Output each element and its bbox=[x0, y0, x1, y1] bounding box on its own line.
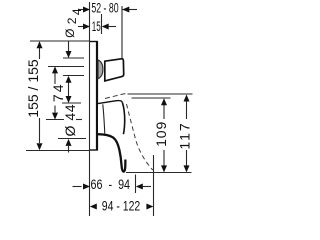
dim 52-80 right arrow bbox=[122, 7, 129, 13]
wire dim O44 tail bottom bbox=[68, 146, 70, 153]
spout body fill bbox=[98, 101, 125, 146]
dim 15 right arrow bbox=[102, 24, 109, 30]
spout front contour line bbox=[103, 104, 105, 134]
handle hub bbox=[98, 60, 103, 79]
dim 94-122 right arrow bbox=[146, 204, 153, 210]
dim 155 bottom arrow bbox=[37, 143, 43, 150]
dim O44 top arrow bbox=[66, 96, 72, 103]
wire dim 74 line bbox=[54, 68, 56, 85]
handle lever bbox=[105, 59, 124, 81]
dashed spout top edge bbox=[105, 93, 128, 98]
dim 74 top arrow bbox=[52, 66, 58, 73]
node ext line lever axis y=66.5 bbox=[48, 66, 84, 68]
svg-text:Ø: Ø bbox=[63, 29, 77, 38]
node ext line lever top y=58 bbox=[63, 57, 84, 59]
node ext line pulled spout tip x=153.5 bbox=[153, 155, 155, 216]
node ext line plate bottom y=150.5 bbox=[26, 150, 90, 152]
wire dim 52-80 tails bbox=[78, 9, 85, 11]
dim 109 top arrow bbox=[161, 98, 167, 105]
dim O24 top arrow bbox=[66, 51, 72, 58]
svg-text:155 / 155: 155 / 155 bbox=[25, 59, 41, 118]
svg-text:4: 4 bbox=[70, 8, 84, 15]
dim 52-80 left arrow bbox=[83, 7, 90, 13]
spout front edge bbox=[123, 103, 125, 134]
wire dim 66-94 tails bbox=[73, 186, 82, 188]
node ext line spout tip x=135.5 bbox=[135, 175, 137, 194]
node ext line lever bottom y=75.5 bbox=[63, 75, 84, 77]
svg-text:52 - 80: 52 - 80 bbox=[91, 0, 118, 15]
svg-text:117: 117 bbox=[176, 121, 192, 149]
dim 15 left arrow bbox=[83, 24, 90, 30]
escutcheon plate front edge bbox=[90, 41, 98, 151]
dim 109 bottom arrow bbox=[161, 165, 167, 172]
node ext line solid-top y=98 bbox=[132, 97, 171, 99]
dim 66-94 left arrow bbox=[83, 184, 90, 190]
svg-text:15: 15 bbox=[92, 19, 101, 34]
svg-text:94 - 122: 94 - 122 bbox=[102, 199, 141, 214]
wire dim 15 tails bbox=[78, 26, 84, 28]
dim O44 bottom arrow bbox=[66, 139, 72, 146]
node ext line 52-80 right bbox=[121, 6, 123, 58]
dim 66-94 right arrow bbox=[136, 184, 143, 190]
node ext line dashed-top y=94 bbox=[128, 93, 193, 95]
spout underside and outlet tail sweep bbox=[98, 134, 125, 171]
node rim reference line y=172.5 bbox=[126, 172, 192, 174]
wire dim 109 line bbox=[163, 105, 165, 119]
dim 117 bottom arrow bbox=[184, 165, 190, 172]
dashed pulled-out spout front curve bbox=[127, 104, 153, 170]
svg-text:66 - 94: 66 - 94 bbox=[91, 177, 131, 192]
node ext line 15 right bbox=[101, 14, 103, 34]
spout top edge bbox=[98, 101, 123, 104]
arrows bbox=[37, 7, 190, 210]
node ext line spout top y=103 bbox=[62, 102, 81, 104]
svg-text:109: 109 bbox=[153, 121, 169, 147]
wire wall extension line x=89.5 bbox=[89, 2, 91, 216]
dim 94-122 left arrow bbox=[90, 204, 97, 210]
wire dim O24 leader bbox=[68, 41, 70, 52]
dim 74 bottom arrow bbox=[52, 113, 58, 120]
node ext line spout bottom y=138.5 bbox=[58, 138, 86, 140]
node ext line 74 bottom y=119.5 bbox=[46, 119, 64, 121]
svg-text:Ø 44: Ø 44 bbox=[62, 104, 78, 136]
dim 155 top arrow bbox=[37, 41, 43, 48]
svg-text:74: 74 bbox=[50, 83, 66, 103]
value label O 24 bbox=[63, 8, 84, 38]
wire dim 117 line bbox=[186, 102, 188, 120]
dim 117 top arrow bbox=[184, 95, 190, 102]
svg-text:2: 2 bbox=[65, 17, 79, 24]
wire dim 155 line bbox=[39, 42, 41, 59]
node ext line plate top y=41 bbox=[30, 40, 90, 42]
dim O24 bottom arrow bbox=[66, 76, 72, 83]
